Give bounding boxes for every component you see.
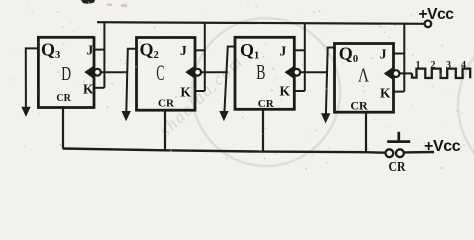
svg-text:+Vcc: +Vcc bbox=[424, 138, 461, 155]
svg-text:J: J bbox=[380, 46, 387, 61]
svg-text:2: 2 bbox=[431, 60, 436, 71]
svg-text:4: 4 bbox=[461, 60, 466, 71]
svg-text:C: C bbox=[156, 60, 164, 85]
svg-text:+Vcc: +Vcc bbox=[419, 6, 455, 23]
svg-text:K: K bbox=[380, 86, 391, 101]
svg-text:K: K bbox=[280, 84, 291, 99]
svg-text:B: B bbox=[256, 60, 265, 84]
svg-text:D: D bbox=[61, 63, 71, 85]
svg-text:3: 3 bbox=[446, 60, 451, 71]
svg-text:CR: CR bbox=[158, 98, 175, 110]
svg-text:K: K bbox=[180, 85, 191, 100]
svg-text:CR: CR bbox=[56, 93, 71, 104]
svg-text:J: J bbox=[87, 43, 94, 58]
svg-text:J: J bbox=[180, 43, 187, 58]
svg-text:CR: CR bbox=[389, 160, 407, 173]
svg-text:J: J bbox=[280, 44, 287, 59]
svg-text:CR: CR bbox=[350, 99, 368, 113]
svg-text:K: K bbox=[83, 82, 94, 97]
svg-text:Λ: Λ bbox=[358, 65, 369, 87]
svg-text:1: 1 bbox=[416, 60, 421, 71]
svg-text:CR: CR bbox=[258, 98, 275, 110]
